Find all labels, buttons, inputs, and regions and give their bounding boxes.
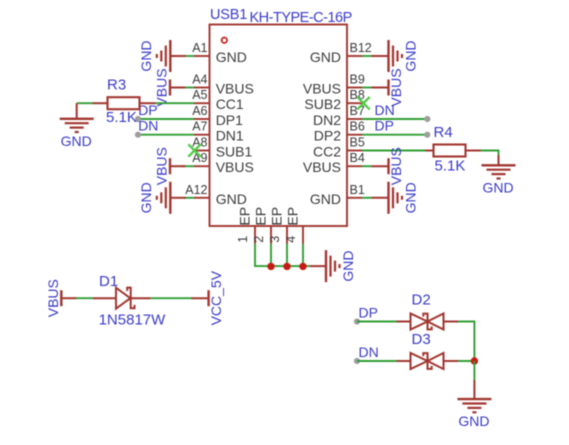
ground flag GND (pin A1) xyxy=(138,40,186,72)
svg-text:DN: DN xyxy=(375,102,395,118)
pin A4 (VBUS) of USB1 xyxy=(192,73,254,97)
junction xyxy=(283,263,290,270)
node DN dangling dot (left) xyxy=(135,132,141,138)
wire D2 to corner xyxy=(458,322,474,362)
label D1 xyxy=(99,273,118,290)
wire A4 to VBUS flag xyxy=(185,87,194,89)
svg-text:GND: GND xyxy=(216,191,247,207)
wire B12 to GND flag xyxy=(362,55,372,57)
wire R4 to GND corner xyxy=(481,151,499,156)
svg-text:DP2: DP2 xyxy=(314,128,341,144)
power flag VBUS (D1 anode) xyxy=(45,279,77,317)
svg-text:GND: GND xyxy=(403,40,419,71)
junction xyxy=(267,263,274,270)
svg-text:DN: DN xyxy=(359,344,379,360)
svg-text:1: 1 xyxy=(236,236,250,243)
wire A1 to GND flag xyxy=(185,55,194,57)
wire VBUS to D1 xyxy=(76,297,93,299)
svg-text:B9: B9 xyxy=(350,73,365,87)
pin B5 (CC2) of USB1 xyxy=(313,136,365,160)
svg-text:A7: A7 xyxy=(192,120,207,134)
no-connect X on pin A8 xyxy=(188,144,200,156)
svg-text:VBUS: VBUS xyxy=(388,147,404,185)
net label DN (right) xyxy=(375,102,395,118)
svg-text:A5: A5 xyxy=(192,88,207,102)
wire A5 to R3 xyxy=(156,102,195,104)
power flag VBUS (pin B9) xyxy=(372,68,405,106)
TVS diode D2 xyxy=(397,314,459,330)
svg-text:VBUS: VBUS xyxy=(216,81,254,97)
wire EP pin 3 drop xyxy=(286,244,288,268)
pin B7 (DN2) of USB1 xyxy=(313,104,365,128)
svg-text:A12: A12 xyxy=(185,183,207,197)
svg-text:B5: B5 xyxy=(350,136,365,150)
svg-text:SUB2: SUB2 xyxy=(304,96,341,112)
pin 3 (EP) of USB1 xyxy=(268,207,287,244)
svg-text:A1: A1 xyxy=(192,41,207,55)
pin B6 (DP2) of USB1 xyxy=(314,120,365,144)
wire junction to GND xyxy=(473,361,475,381)
value 5.1K (R4) xyxy=(435,158,466,175)
diode D1 (schottky) xyxy=(93,288,151,309)
net label DP (left) xyxy=(138,102,157,118)
label R3 xyxy=(107,77,126,94)
net label DP (bottom) xyxy=(359,305,378,321)
svg-text:5.1K: 5.1K xyxy=(106,109,137,126)
svg-text:VBUS: VBUS xyxy=(154,68,170,106)
power flag VBUS (pin B4) xyxy=(372,147,405,185)
svg-text:VBUS: VBUS xyxy=(45,279,61,317)
pin B1 (GND) of USB1 xyxy=(310,183,365,207)
svg-text:DN1: DN1 xyxy=(216,128,244,144)
svg-text:DN: DN xyxy=(138,118,158,134)
pin A1 (GND) of USB1 xyxy=(192,41,247,65)
ground flag GND (pin B12) xyxy=(372,40,419,72)
svg-text:GND: GND xyxy=(310,191,341,207)
svg-text:DP: DP xyxy=(138,102,157,118)
svg-text:DP: DP xyxy=(375,118,394,134)
wire B7 to node DN xyxy=(362,118,427,120)
wire B4 to VBUS flag xyxy=(362,165,372,167)
node DN dangling dot (right) xyxy=(424,116,430,122)
wire DP to D2 xyxy=(357,321,397,323)
wire A6 to node DP xyxy=(138,118,194,120)
wire A7 to node DN xyxy=(138,134,194,136)
TVS diode D3 xyxy=(397,353,459,369)
power flag VCC_5V (D1 cathode) xyxy=(192,270,225,325)
svg-text:GND: GND xyxy=(310,49,341,65)
wire D1 to VCC_5V xyxy=(151,297,193,299)
svg-text:B4: B4 xyxy=(350,151,365,165)
pin 4 (EP) of USB1 xyxy=(284,207,303,244)
junction xyxy=(471,357,478,364)
label D3 xyxy=(412,331,431,348)
svg-text:B1: B1 xyxy=(350,183,365,197)
node DP dangling dot (bottom) xyxy=(354,318,360,324)
pin B12 (GND) of USB1 xyxy=(310,41,372,65)
wire DN to D3 xyxy=(357,360,397,362)
pin A6 (DP1) of USB1 xyxy=(192,104,243,128)
pin B4 (VBUS) of USB1 xyxy=(303,151,365,175)
svg-text:EP: EP xyxy=(237,207,253,226)
pin 1 (EP) of USB1 xyxy=(236,207,255,244)
svg-text:R4: R4 xyxy=(434,124,453,141)
svg-text:A4: A4 xyxy=(192,73,207,87)
svg-text:EP: EP xyxy=(285,207,301,226)
svg-text:VBUS: VBUS xyxy=(303,159,341,175)
label KH-TYPE-C-16P (part name) xyxy=(250,10,352,26)
svg-text:D3: D3 xyxy=(412,331,431,348)
ground flag GND (D2 D3) xyxy=(457,380,491,429)
wire B6 to node DP xyxy=(362,134,427,136)
wire A12 to GND flag xyxy=(184,197,194,199)
node DN dangling dot (bottom) xyxy=(354,358,360,364)
power flag VBUS (pin A4) xyxy=(154,68,186,106)
ground flag GND (pin B1) xyxy=(372,182,419,214)
wire GND drop (R3) xyxy=(76,103,78,109)
pin B9 (VBUS) of USB1 xyxy=(303,73,365,97)
net label DN (left) xyxy=(138,118,158,134)
value 1N5817W (D1) xyxy=(99,312,167,329)
svg-text:GND: GND xyxy=(216,49,247,65)
label R4 xyxy=(434,124,453,141)
svg-text:GND: GND xyxy=(340,251,356,282)
wire A9 to VBUS flag xyxy=(182,165,194,167)
pin A8 (SUB1) of USB1 xyxy=(192,136,252,160)
label USB1 (reference designator) xyxy=(210,7,247,23)
svg-text:GND: GND xyxy=(61,133,92,149)
svg-text:VBUS: VBUS xyxy=(303,81,341,97)
svg-text:D2: D2 xyxy=(412,292,431,309)
resistor R3 xyxy=(93,97,156,109)
net label DN (bottom) xyxy=(359,344,379,360)
svg-text:4: 4 xyxy=(284,236,298,243)
svg-text:A8: A8 xyxy=(192,136,207,150)
svg-text:1N5817W: 1N5817W xyxy=(99,312,167,329)
pin A9 (VBUS) of USB1 xyxy=(192,151,254,175)
node DP dangling dot (left) xyxy=(135,116,141,122)
junction xyxy=(299,263,306,270)
wire R3 to GND corner xyxy=(77,102,93,104)
svg-text:VBUS: VBUS xyxy=(388,68,404,106)
svg-text:5.1K: 5.1K xyxy=(435,158,466,175)
svg-text:CC1: CC1 xyxy=(216,96,244,112)
pin 2 (EP) of USB1 xyxy=(252,207,271,244)
wire B9 to VBUS flag xyxy=(362,87,372,89)
ground flag GND (R4) xyxy=(482,155,516,195)
wire EP pin 4 drop xyxy=(302,244,304,268)
pin-1 indicator circle xyxy=(222,38,227,43)
svg-text:A6: A6 xyxy=(192,104,207,118)
ground flag GND (EP pins) xyxy=(310,250,356,282)
svg-text:DP1: DP1 xyxy=(216,112,243,128)
wire D3 to GND drop xyxy=(458,360,474,362)
wire B1 to GND flag xyxy=(362,197,372,199)
pin A5 (CC1) of USB1 xyxy=(192,88,244,112)
power flag VBUS (pin A9) xyxy=(154,147,186,185)
svg-text:DN2: DN2 xyxy=(313,112,341,128)
svg-text:VCC_5V: VCC_5V xyxy=(208,270,224,325)
svg-text:EP: EP xyxy=(253,207,269,226)
svg-text:SUB1: SUB1 xyxy=(216,144,253,160)
svg-text:GND: GND xyxy=(458,413,489,429)
pin B8 (SUB2) of USB1 xyxy=(304,88,364,112)
svg-text:D1: D1 xyxy=(99,273,118,290)
svg-text:VBUS: VBUS xyxy=(154,147,170,185)
svg-text:GND: GND xyxy=(403,182,419,213)
wire EP bus xyxy=(255,265,310,267)
svg-text:DP: DP xyxy=(359,305,378,321)
label D2 xyxy=(412,292,431,309)
svg-text:B6: B6 xyxy=(350,120,365,134)
svg-text:KH-TYPE-C-16P: KH-TYPE-C-16P xyxy=(250,10,352,26)
wire B5 to R4 xyxy=(362,150,426,152)
svg-text:GND: GND xyxy=(482,179,513,195)
op-amp/IC body USB1 KH-TYPE-C-16P xyxy=(210,25,348,227)
node DP dangling dot (right) xyxy=(424,132,430,138)
net label DP (right) xyxy=(375,118,394,134)
pin A7 (DN1) of USB1 xyxy=(192,120,244,144)
svg-text:B7: B7 xyxy=(350,104,365,118)
wire EP pin 1 drop xyxy=(254,244,256,268)
svg-text:VBUS: VBUS xyxy=(216,159,254,175)
svg-text:A9: A9 xyxy=(192,151,207,165)
ground flag GND (R3) xyxy=(60,109,94,149)
pin A12 (GND) of USB1 xyxy=(185,183,247,207)
svg-text:2: 2 xyxy=(252,236,266,243)
svg-text:GND: GND xyxy=(138,182,154,213)
svg-text:EP: EP xyxy=(269,207,285,226)
svg-text:GND: GND xyxy=(138,40,154,71)
wire EP pin 2 drop xyxy=(270,244,272,268)
no-connect X on pin B8 xyxy=(357,97,369,110)
svg-text:R3: R3 xyxy=(107,77,126,94)
svg-text:3: 3 xyxy=(268,236,282,243)
ground flag GND (pin A12) xyxy=(138,182,186,214)
value 5.1K (R3) xyxy=(106,109,137,126)
resistor R4 xyxy=(426,145,481,157)
svg-text:B8: B8 xyxy=(350,88,365,102)
svg-text:B12: B12 xyxy=(350,41,372,55)
svg-text:CC2: CC2 xyxy=(313,144,341,160)
svg-text:USB1: USB1 xyxy=(210,7,247,23)
